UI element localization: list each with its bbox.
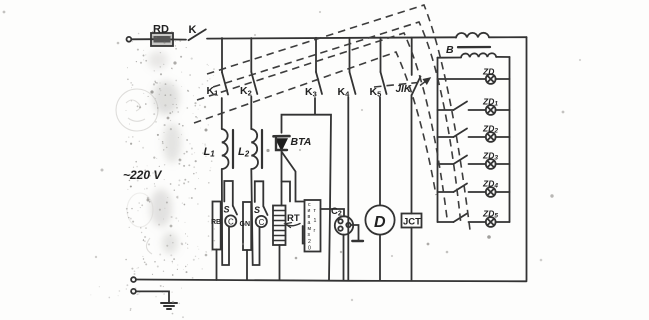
ground [161,303,177,309]
mechanical linkage dashed lines [194,5,470,230]
svg-text:K: K [189,24,197,36]
svg-text:1: 1 [314,218,317,224]
wire right conductor [526,37,528,280]
wire C2 to bus [343,235,345,280]
svg-text:0: 0 [308,246,311,252]
switch contact row 4 [438,156,468,165]
lamp C2 indicator [256,216,267,227]
svg-text:BTA: BTA [291,136,312,148]
svg-text:RT: RT [287,213,300,224]
svg-text:GN: GN [240,221,251,228]
linkage dashed line 4 [194,52,436,195]
wire BTA diagonal to box [282,152,305,202]
linkage dashed trip rod to JIK [374,83,418,88]
wire BTA stub loop [282,182,291,202]
contact JIK [396,38,421,214]
wire K3 branch loop [282,115,332,280]
node input terminal top [126,37,131,42]
wire RB to bus [216,250,218,281]
wire GN to bus [246,250,248,280]
transformer B primary [456,33,489,38]
wire input to fuse [131,38,151,40]
svg-text:ZD5: ZD5 [482,209,498,220]
wire branch 2 main [251,169,259,265]
svg-text:K2: K2 [240,85,252,98]
svg-text:RD: RD [153,24,169,36]
wire JCT to bus [411,228,413,281]
inductor L2 [238,129,262,169]
wire RT wiper to box [303,226,305,244]
wire lamp panel top rail [438,56,510,59]
svg-text:ZD3: ZD3 [482,151,498,162]
wire D to bus [379,235,381,280]
lamp ZD1 [469,97,510,115]
contact K2 [240,38,257,129]
wire RT to bus [279,245,281,280]
wire to ground [136,291,169,302]
resistor RT [273,206,300,246]
wire top bus right [489,36,527,38]
lamp C1 indicator [225,215,236,226]
wire bottom bus [136,280,527,282]
lamp ZD2 [469,124,510,142]
rectifier BTA [274,136,312,152]
svg-text:C: C [228,218,234,227]
svg-text:JCT: JCT [403,217,421,228]
svg-text:S: S [224,205,230,215]
svg-text:ZD2: ZD2 [482,124,498,135]
svg-text:т: т [314,208,317,214]
node ground terminal [131,289,136,294]
switch contact row 2 [438,102,468,111]
svg-text:L2: L2 [238,146,250,159]
switch S2 [254,205,268,215]
transformer B secondary [461,53,496,57]
switch contact row 5 [438,184,468,193]
switch contact row 3 [438,129,468,138]
contact K5 [370,38,387,206]
wire BTA to RT [281,152,283,206]
svg-text:K3: K3 [305,86,317,99]
node output terminal bottom [131,277,136,282]
scan speckle band [90,31,215,318]
scan noise [148,51,181,254]
svg-text:C: C [259,218,265,227]
wire branch 1 main [222,169,229,265]
wire box to arm [321,209,345,216]
wire lamp panel right rail [509,57,511,222]
svg-text:K5: K5 [370,86,382,99]
switch S1 [224,205,238,215]
contact K3 [305,38,322,115]
svg-text:ZD1: ZD1 [482,97,498,108]
svg-text:C2: C2 [331,206,342,218]
linkage arrow at JIK [420,78,430,86]
svg-text:B: B [446,44,454,56]
contact K1 [207,38,229,129]
lamp ZD [438,67,510,84]
switch K [189,24,206,40]
lamp ZD4 [469,179,510,197]
svg-text:RB: RB [211,219,221,226]
transformer B core [446,44,490,56]
svg-text:D: D [374,214,386,231]
inductor L1 [204,129,234,169]
motor D [365,205,394,234]
svg-text:2: 2 [308,239,311,245]
svg-text:г: г [314,228,316,234]
switch contact row 6 [438,214,468,223]
resistor RB [211,202,221,250]
wire branch 2 tap loop [255,181,263,206]
linkage dashed line 1 [207,5,470,230]
svg-text:K4: K4 [338,86,351,99]
relay box JCT [402,214,422,228]
wire lamp panel left rail [437,58,439,222]
contact K4 [338,38,356,280]
svg-text:ZD4: ZD4 [482,179,498,190]
svg-text:ZD: ZD [482,67,494,77]
svg-text:s: s [308,232,311,238]
wire top bus [207,37,456,38]
resistor GN [240,202,252,250]
fuse RD [151,24,186,47]
ghost stamp [116,89,158,254]
socket C2 [331,206,353,235]
wire branch 1 tap loop [224,181,233,206]
linkage dashed line 3 [197,33,447,218]
lamp ZD5 [469,209,510,227]
svg-text:S: S [254,205,260,215]
lamp ZD3 [469,151,510,169]
linkage dashed line 2 [213,22,461,225]
capacitor stub of C2 [351,225,359,240]
regulator box [305,200,321,252]
